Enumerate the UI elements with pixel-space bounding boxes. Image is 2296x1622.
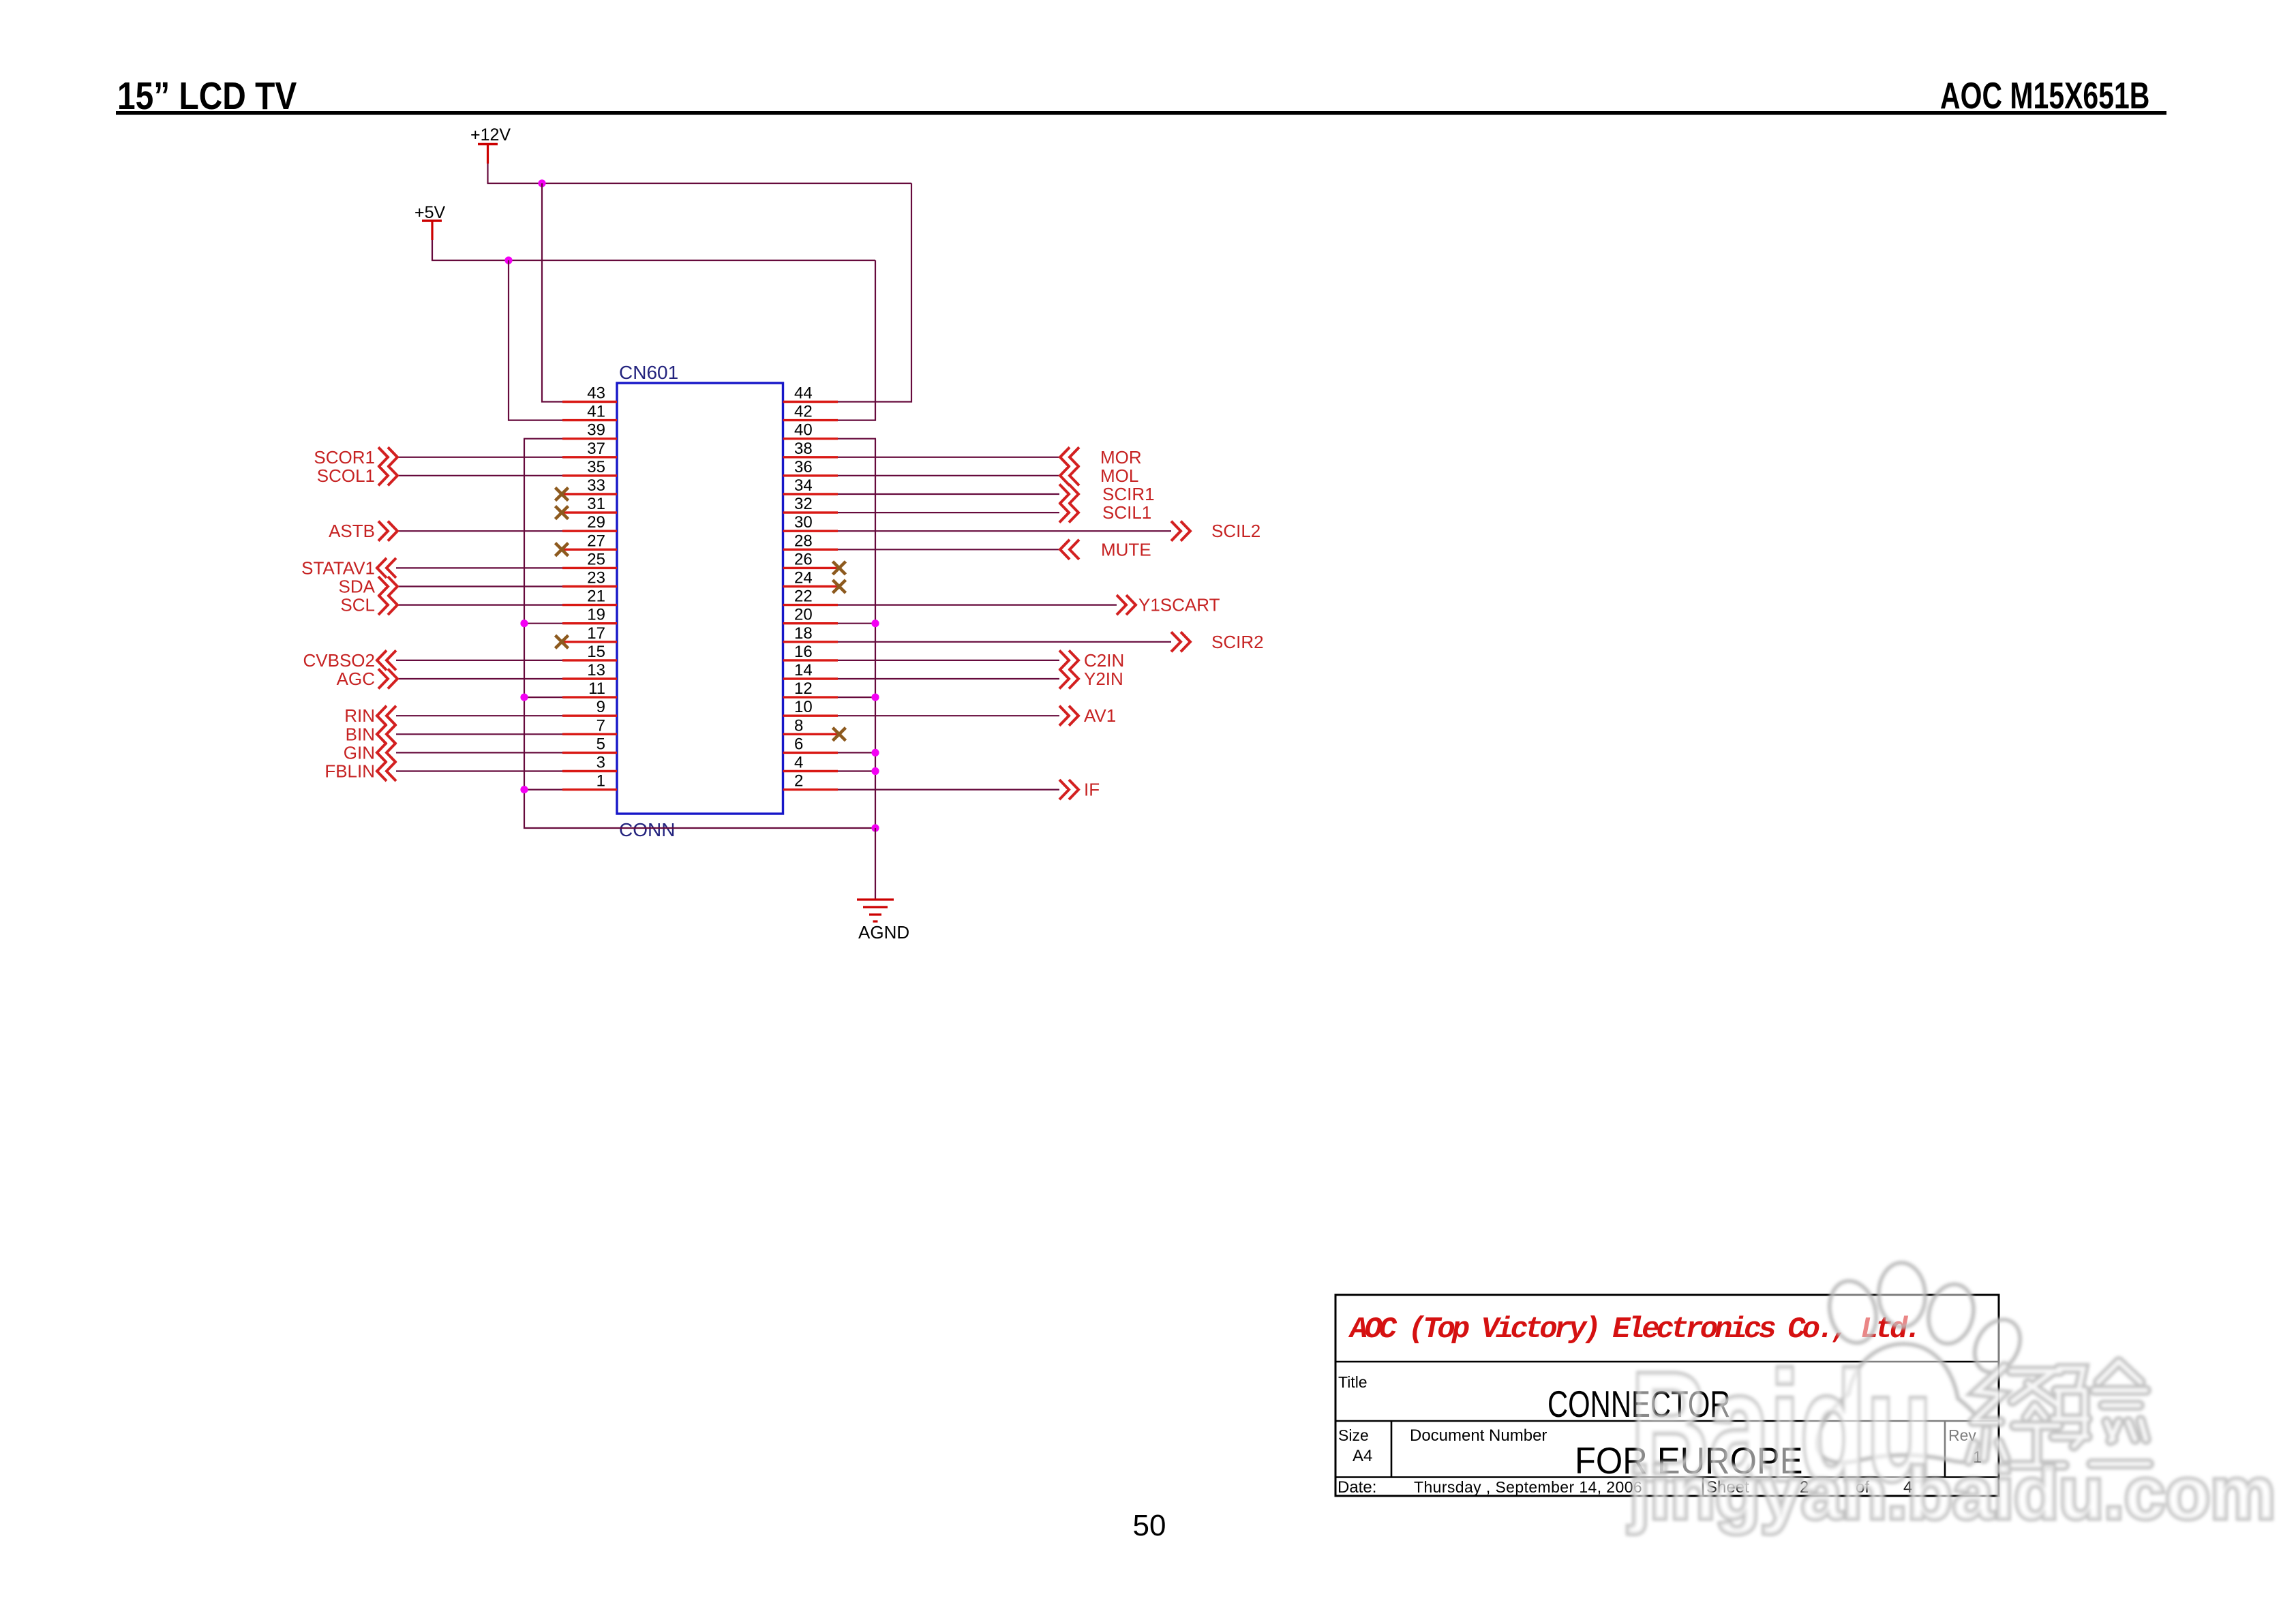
svg-text:27: 27	[587, 532, 605, 550]
junction left bus at pin 1	[520, 786, 528, 793]
pin 4 (CN601 right)	[783, 754, 839, 772]
junction right bus at pin 20	[871, 619, 879, 627]
wire SCIR2 to pin 18	[838, 641, 1171, 643]
svg-text:7: 7	[596, 716, 605, 735]
page header left: 15" LCD TV	[117, 74, 297, 118]
connector CN601 body	[617, 383, 783, 814]
pin 18 (CN601 right)	[783, 624, 839, 643]
pin 12 (CN601 right)	[783, 679, 839, 698]
title block divider size/date	[1335, 1476, 1999, 1478]
port AGC	[337, 669, 397, 689]
svg-text:SCIR2: SCIR2	[1211, 632, 1264, 652]
wire GIN to pin 5	[396, 752, 562, 753]
svg-text:23: 23	[587, 569, 605, 587]
svg-text:30: 30	[794, 513, 813, 532]
port MUTE	[1060, 539, 1151, 560]
wire CVBSO2 to pin 15	[396, 660, 562, 661]
port STATAV1	[301, 557, 396, 578]
pin 9 (CN601 left)	[562, 698, 617, 716]
no-connect X on pin 8	[833, 728, 846, 741]
wire pin 12 to right bus	[838, 697, 875, 698]
value date	[1414, 1478, 1642, 1496]
port AV1	[1059, 705, 1116, 726]
svg-text:42: 42	[794, 403, 813, 421]
svg-text:2: 2	[794, 772, 803, 791]
wire SDA to pin 23	[397, 585, 562, 587]
pin 17 (CN601 left)	[562, 624, 617, 643]
junction right bus at pin 4	[871, 767, 879, 775]
wire SCIR1 to pin 34	[838, 493, 1059, 495]
svg-text:24: 24	[794, 569, 813, 587]
label Sheet	[1706, 1478, 1749, 1497]
svg-text:41: 41	[587, 403, 605, 421]
ground AGND	[857, 828, 909, 943]
port Y1SCART	[1117, 595, 1220, 615]
pin 23 (CN601 left)	[562, 569, 617, 587]
svg-text:33: 33	[587, 476, 605, 495]
port MOL	[1060, 465, 1138, 486]
svg-text:10: 10	[794, 698, 813, 716]
port FBLIN	[324, 761, 396, 782]
svg-text:34: 34	[794, 476, 813, 495]
svg-text:A4: A4	[1353, 1447, 1372, 1465]
wire pin 20 to right bus	[838, 623, 875, 624]
svg-text:32: 32	[794, 495, 813, 513]
svg-text:+5V: +5V	[414, 203, 446, 222]
wire SCIL1 to pin 32	[838, 512, 1059, 513]
junction +12V rail / pin43 branch	[538, 179, 545, 187]
junction left bus at pin 11	[520, 694, 528, 701]
wire SCOL1 to pin 35	[397, 475, 562, 476]
wire SCL to pin 21	[397, 604, 562, 605]
pin 2 (CN601 right)	[783, 772, 839, 791]
no-connect X on pin 27	[556, 543, 569, 556]
pin 13 (CN601 left)	[562, 661, 617, 679]
junction bottom bus / AGND	[871, 824, 879, 831]
wire +12V to pin 43	[542, 183, 562, 402]
wire pin 1 to left bus	[524, 789, 562, 790]
port Y2IN	[1059, 669, 1123, 689]
port RIN	[344, 705, 396, 726]
svg-text:11: 11	[588, 679, 605, 698]
svg-text:SDA: SDA	[339, 577, 376, 597]
wire FBLIN to pin 3	[396, 770, 562, 771]
pin 28 (CN601 right)	[783, 532, 839, 550]
wire MOR to pin 38	[838, 457, 1060, 458]
value size A4	[1353, 1447, 1372, 1465]
svg-text:17: 17	[587, 624, 605, 643]
company name AOC (Top Victory) Electronics Co., Ltd.	[1348, 1313, 1919, 1347]
wire pin 4 to right bus	[838, 770, 875, 771]
pin 33 (CN601 left)	[562, 476, 617, 495]
title block divider rev column	[1944, 1421, 1946, 1478]
svg-text:Title: Title	[1338, 1373, 1368, 1391]
svg-text:8: 8	[794, 716, 803, 735]
pin 3 (CN601 left)	[562, 754, 617, 772]
pin 32 (CN601 right)	[783, 495, 839, 513]
svg-text:SCIR1: SCIR1	[1102, 484, 1155, 504]
pin 22 (CN601 right)	[783, 587, 839, 606]
pin 14 (CN601 right)	[783, 661, 839, 679]
wire +5V to pin 41	[509, 260, 562, 420]
wire RIN to pin 9	[396, 715, 562, 716]
no-connect X on pin 33	[556, 488, 569, 501]
pin 19 (CN601 left)	[562, 606, 617, 624]
page number 50	[1133, 1509, 1166, 1542]
pin 7 (CN601 left)	[562, 716, 617, 735]
pin 39 (CN601 left)	[562, 421, 617, 440]
svg-text:40: 40	[794, 421, 813, 440]
svg-text:25: 25	[587, 550, 605, 568]
svg-text:Date:: Date:	[1338, 1478, 1376, 1497]
svg-text:AOC M15X651B: AOC M15X651B	[1940, 75, 2149, 117]
svg-text:SCOR1: SCOR1	[314, 447, 375, 468]
svg-text:43: 43	[587, 384, 605, 403]
svg-text:4: 4	[794, 754, 803, 772]
no-connect X on pin 24	[833, 580, 846, 593]
pin 20 (CN601 right)	[783, 606, 839, 624]
svg-text:STATAV1: STATAV1	[301, 557, 375, 578]
pin 41 (CN601 left)	[562, 403, 617, 421]
title block frame	[1335, 1295, 1999, 1496]
svg-text:AV1: AV1	[1084, 705, 1116, 726]
svg-text:BIN: BIN	[346, 724, 375, 744]
junction +5V rail / pin41 branch	[504, 256, 512, 264]
header rule	[116, 111, 2166, 115]
pin 37 (CN601 left)	[562, 440, 617, 458]
svg-text:Y1SCART: Y1SCART	[1138, 595, 1220, 615]
pin 38 (CN601 right)	[783, 440, 839, 458]
svg-text:SCL: SCL	[340, 595, 375, 615]
wire +5V rail	[432, 260, 875, 261]
svg-text:CN601: CN601	[619, 362, 678, 383]
svg-text:SCOL1: SCOL1	[317, 465, 375, 486]
port CVBSO2	[303, 650, 397, 671]
svg-text:5: 5	[596, 735, 605, 753]
label Size	[1338, 1426, 1369, 1444]
svg-text:9: 9	[596, 698, 605, 716]
svg-text:14: 14	[794, 661, 813, 679]
wire +12V rail	[487, 183, 912, 184]
wire C2IN to pin 16	[838, 660, 1059, 661]
label CONN	[619, 819, 675, 840]
pin 1 (CN601 left)	[562, 772, 617, 791]
svg-text:SCIL1: SCIL1	[1102, 502, 1151, 523]
value sheet total 4	[1903, 1478, 1912, 1497]
port SCIL1	[1059, 502, 1151, 523]
wire pin 39 to left bus	[524, 438, 562, 440]
wire +12V to pin 44	[838, 183, 911, 402]
svg-text:MOL: MOL	[1100, 465, 1138, 486]
svg-text:Document Number: Document Number	[1410, 1426, 1547, 1445]
title block divider title/size	[1335, 1420, 1999, 1422]
port SCOL1	[317, 465, 397, 486]
wire GND bus left (pin39 down and along bottom)	[524, 439, 875, 828]
svg-text:37: 37	[587, 440, 605, 458]
pin 42 (CN601 right)	[783, 403, 839, 421]
svg-text:31: 31	[587, 495, 605, 513]
svg-text:FBLIN: FBLIN	[324, 761, 375, 782]
title block divider size column	[1391, 1421, 1393, 1478]
svg-text:20: 20	[794, 606, 813, 624]
pin 15 (CN601 left)	[562, 643, 617, 661]
wire Y2IN to pin 14	[838, 678, 1059, 679]
svg-text:36: 36	[794, 458, 813, 476]
port SCIL2	[1171, 521, 1260, 541]
pin 29 (CN601 left)	[562, 513, 617, 532]
svg-text:GIN: GIN	[344, 742, 375, 763]
pin 30 (CN601 right)	[783, 513, 839, 532]
wire IF to pin 2	[838, 789, 1059, 790]
svg-text:50: 50	[1133, 1509, 1166, 1542]
pin 6 (CN601 right)	[783, 735, 839, 753]
svg-text:AGND: AGND	[858, 922, 909, 943]
title block divider sheet column	[1702, 1478, 1704, 1497]
pin 5 (CN601 left)	[562, 735, 617, 753]
port C2IN	[1059, 650, 1124, 671]
wire AGC to pin 13	[397, 678, 562, 679]
svg-text:39: 39	[587, 421, 605, 440]
wire Y1SCART to pin 22	[838, 604, 1117, 605]
svg-text:IF: IF	[1084, 780, 1100, 800]
svg-text:1: 1	[596, 772, 605, 791]
svg-text:28: 28	[794, 532, 813, 550]
wire GND bus right (pin40 down to AGND)	[875, 439, 876, 828]
svg-text:Y2IN: Y2IN	[1084, 669, 1123, 689]
label Rev	[1948, 1426, 1976, 1444]
pin 34 (CN601 right)	[783, 476, 839, 495]
svg-text:6: 6	[794, 735, 803, 753]
pin 26 (CN601 right)	[783, 550, 839, 568]
pin 24 (CN601 right)	[783, 569, 839, 587]
pin 16 (CN601 right)	[783, 643, 839, 661]
watermark: Baidu Jingyan logo	[1628, 1262, 2276, 1534]
doc number FOR EUROPE	[1575, 1440, 1802, 1482]
pin 40 (CN601 right)	[783, 421, 839, 440]
port SDA	[339, 577, 397, 597]
svg-text:ASTB: ASTB	[329, 521, 375, 541]
svg-text:44: 44	[794, 384, 813, 403]
pin 10 (CN601 right)	[783, 698, 839, 716]
pin 31 (CN601 left)	[562, 495, 617, 513]
no-connect X on pin 26	[833, 562, 846, 575]
pin 36 (CN601 right)	[783, 458, 839, 476]
svg-text:Thursday , September 14, 200: Thursday , September 14, 2006	[1414, 1478, 1642, 1496]
svg-text:13: 13	[587, 661, 605, 679]
no-connect X on pin 17	[556, 635, 569, 648]
port SCIR1	[1059, 484, 1155, 504]
svg-text:12: 12	[794, 679, 813, 698]
pin 43 (CN601 left)	[562, 384, 617, 403]
svg-text:15: 15	[587, 643, 605, 661]
port SCL	[340, 595, 397, 615]
port BIN	[346, 724, 396, 744]
svg-text:MOR: MOR	[1100, 447, 1142, 468]
svg-text:3: 3	[596, 754, 605, 772]
wire ASTB to pin 29	[397, 530, 562, 532]
svg-text:CONN: CONN	[619, 819, 675, 840]
pin 44 (CN601 right)	[783, 384, 839, 403]
no-connect X on pin 31	[556, 506, 569, 519]
label of	[1856, 1478, 1869, 1497]
svg-text:AGC: AGC	[337, 669, 375, 689]
svg-text:35: 35	[587, 458, 605, 476]
title block divider company/title	[1335, 1361, 1999, 1363]
port SCOR1	[314, 447, 397, 468]
pin 8 (CN601 right)	[783, 716, 839, 735]
svg-text:38: 38	[794, 440, 813, 458]
svg-text:SCIL2: SCIL2	[1211, 521, 1260, 541]
port IF	[1059, 780, 1100, 800]
svg-text:29: 29	[587, 513, 605, 532]
wire SCIL2 to pin 30	[838, 530, 1171, 532]
pin 21 (CN601 left)	[562, 587, 617, 606]
value rev 1	[1973, 1448, 1982, 1467]
svg-text:22: 22	[794, 587, 813, 606]
label Document Number	[1410, 1426, 1547, 1445]
power symbol +5V	[414, 203, 446, 260]
wire pin 6 to right bus	[838, 752, 875, 753]
svg-text:16: 16	[794, 643, 813, 661]
pin 27 (CN601 left)	[562, 532, 617, 550]
port ASTB	[329, 521, 397, 541]
svg-text:+12V: +12V	[470, 125, 511, 144]
wire MOL to pin 36	[838, 475, 1060, 476]
port MOR	[1060, 447, 1142, 468]
label Date:	[1338, 1478, 1376, 1497]
wire SCOR1 to pin 37	[397, 457, 562, 458]
svg-text:19: 19	[587, 606, 605, 624]
wire pin 19 to left bus	[524, 623, 562, 624]
pin 25 (CN601 left)	[562, 550, 617, 568]
svg-text:RIN: RIN	[344, 705, 375, 726]
svg-text:Size: Size	[1338, 1426, 1369, 1444]
junction right bus at pin 12	[871, 694, 879, 701]
junction left bus at pin 19	[520, 619, 528, 627]
wire STATAV1 to pin 25	[396, 567, 562, 568]
pin 11 (CN601 left)	[562, 679, 617, 698]
port SCIR2	[1171, 632, 1264, 652]
wire pin 11 to left bus	[524, 697, 562, 698]
svg-text:C2IN: C2IN	[1084, 650, 1124, 671]
svg-text:21: 21	[587, 587, 605, 606]
svg-text:MUTE: MUTE	[1101, 539, 1151, 560]
svg-text:26: 26	[794, 550, 813, 568]
label CN601	[619, 362, 678, 383]
wire BIN to pin 7	[396, 733, 562, 735]
title CONNECTOR	[1547, 1384, 1731, 1426]
label Title	[1338, 1373, 1368, 1391]
wire AV1 to pin 10	[838, 715, 1059, 716]
pin 35 (CN601 left)	[562, 458, 617, 476]
port GIN	[344, 742, 396, 763]
page header right: AOC M15X651B	[1940, 75, 2149, 117]
wire +5V to pin 42	[838, 260, 875, 420]
value sheet 2	[1800, 1478, 1809, 1497]
svg-text:jingyan.baidu.com: jingyan.baidu.com	[1628, 1452, 2276, 1534]
wire MUTE to pin 28	[838, 549, 1060, 550]
svg-text:18: 18	[794, 624, 813, 643]
wire pin 40 to right bus	[838, 438, 876, 440]
junction right bus at pin 6	[871, 749, 879, 756]
power symbol +12V	[470, 125, 511, 183]
svg-text:CVBSO2: CVBSO2	[303, 650, 376, 671]
